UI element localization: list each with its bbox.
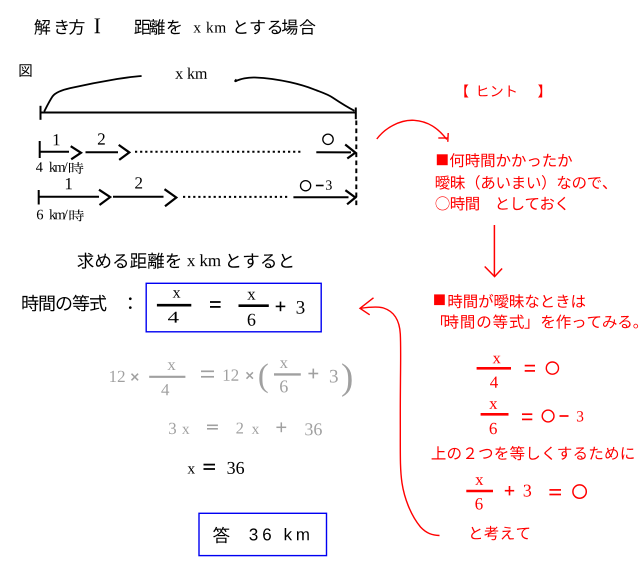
boxed eq numerator x1 — [173, 290, 181, 297]
title text 方 — [69, 19, 84, 35]
red frac3 equals — [549, 489, 561, 491]
row1 start tick — [39, 141, 41, 158]
row1 circle mark — [323, 134, 333, 144]
row2 arrow3 shaft — [293, 196, 348, 198]
title text 合 — [300, 19, 316, 35]
gray eq1 times right — [247, 372, 253, 378]
speed label km/ 1 — [49, 162, 67, 172]
red text 上の２つを等しくするために — [432, 446, 634, 460]
gray eq2 plus — [276, 426, 286, 428]
row1 arrow3 head — [345, 145, 355, 159]
red text を作ってみる。 — [542, 315, 638, 329]
big red curve — [361, 307, 440, 535]
gray eq2 equals — [207, 424, 218, 426]
red text 何時間かかったか — [450, 153, 572, 167]
hint header bracket right — [538, 85, 542, 98]
red arrow 1 head bar — [438, 137, 448, 139]
speed label 時 (serif) — [69, 162, 84, 174]
title text 離 — [149, 19, 165, 35]
row1 arrow3 shaft — [316, 151, 351, 153]
gray eq1 close paren — [342, 363, 352, 397]
red square bullet 2 — [434, 294, 445, 305]
red frac3 numerator x — [475, 477, 483, 485]
row2 label 1 — [66, 178, 72, 189]
speed label 時 (serif) 2 — [70, 210, 85, 222]
red frac1 circle — [546, 362, 558, 374]
red text ○時間 としておく — [436, 196, 566, 210]
title text 解 — [34, 19, 50, 35]
gray eq2 36 — [305, 423, 322, 435]
red frac2 numerator x — [489, 401, 497, 409]
red text 時間の等式 — [445, 314, 524, 328]
gray eq2 2 — [236, 423, 243, 434]
boxed eq bar2 — [239, 304, 269, 307]
gray eq2 x — [182, 427, 190, 434]
x km label over brace — [175, 68, 207, 79]
gray eq1 open paren — [259, 363, 267, 393]
red vertical arrow head — [485, 267, 502, 277]
row2 arrow2 head — [165, 189, 177, 206]
black x=36 36 — [228, 462, 245, 474]
black text 求める距離を — [77, 253, 180, 269]
row1 dotted line — [135, 151, 301, 153]
black colon — [129, 297, 132, 309]
boxed eq denominator 4 — [168, 312, 179, 323]
row1 arrow1 shaft — [40, 151, 69, 153]
gray eq1 12 right — [224, 369, 239, 380]
title text を — [168, 20, 181, 34]
boxed eq bar1 — [157, 304, 191, 307]
black x=36 equals — [204, 464, 216, 466]
hint header ヒント — [479, 86, 516, 97]
boxed eq plus — [276, 305, 286, 307]
red frac2 three — [577, 411, 583, 422]
gray eq1 numerator x2 — [280, 360, 288, 368]
red curved arrow 1 — [377, 120, 447, 139]
black text とすると — [228, 253, 292, 268]
red square bullet 1 — [437, 154, 448, 165]
answer letter m — [297, 531, 309, 540]
gray eq1 bar — [149, 376, 185, 378]
speed label km/ 2 — [49, 209, 68, 219]
row2 dotted line — [183, 196, 289, 198]
row2 minus sign — [316, 185, 324, 187]
red frac2 denominator 6 — [490, 423, 497, 435]
red frac2 minus — [560, 415, 569, 417]
gray eq1 12 left — [110, 371, 125, 382]
boxed eq equals — [210, 301, 221, 303]
hint header bracket left — [464, 85, 468, 98]
baseline segment — [40, 112, 357, 114]
gray eq1 bar2 — [274, 373, 301, 375]
red arrow 1 head bar2 — [447, 133, 449, 142]
title text す — [251, 20, 265, 34]
red frac2 circle — [542, 410, 554, 422]
red frac1 numerator x — [493, 356, 501, 364]
red frac3 denominator 6 — [475, 498, 482, 510]
answer digit 3 — [249, 528, 257, 540]
gray eq1 plus — [308, 373, 318, 375]
red frac2 equals — [522, 413, 532, 415]
boxed eq numerator x2 — [247, 292, 255, 300]
dashed vertical line — [355, 121, 357, 208]
title text と — [236, 20, 247, 34]
red frac3 circle — [573, 485, 586, 498]
red text 」(bracket) — [525, 319, 530, 329]
boxed eq denominator 6 — [248, 314, 256, 326]
title text る — [269, 21, 282, 34]
blue equation box — [146, 283, 321, 332]
zu label 図 — [20, 64, 32, 77]
row2 label 2 — [135, 177, 142, 188]
gray eq1 three — [330, 370, 338, 383]
red text 時間が曖昧なときは — [449, 294, 586, 308]
speed label 4 — [36, 162, 43, 172]
title text き — [56, 20, 68, 34]
answer text 答 — [213, 527, 230, 543]
red vertical arrow shaft — [493, 225, 495, 276]
red frac1 equals — [525, 365, 535, 367]
boxed eq three — [297, 301, 305, 314]
title text 距 — [134, 20, 150, 35]
title text x km — [193, 22, 226, 33]
red frac3 plus — [505, 490, 514, 492]
answer letter k — [285, 528, 292, 540]
row1 arrow2 shaft — [86, 151, 119, 153]
row2 start tick — [38, 190, 40, 205]
row2 label 3 — [326, 180, 332, 189]
black x=36 x — [188, 466, 196, 473]
row1 arrow1 head — [71, 146, 81, 159]
row2 arrow2 shaft — [113, 196, 164, 198]
left end tick — [40, 106, 42, 120]
red text 曖昧（あいまい）なので、 — [436, 175, 607, 190]
right brace curve — [235, 77, 354, 110]
title roman numeral I — [95, 19, 101, 34]
row2 circle mark — [301, 181, 311, 191]
gray eq1 times left — [132, 374, 139, 381]
row2 arrow1 shaft — [40, 196, 100, 198]
red text と考えて — [471, 526, 529, 540]
right end tick — [355, 108, 357, 120]
row1 arrow2 head — [119, 145, 130, 160]
row2 arrow3 head — [345, 190, 355, 204]
red frac1 bar — [477, 367, 511, 370]
gray eq2 3 — [169, 423, 176, 435]
black text 時間の等式 — [22, 295, 106, 312]
big red curve arrowhead — [360, 298, 374, 315]
red frac3 three — [524, 485, 531, 497]
red frac2 bar — [481, 413, 509, 416]
gray eq1 denominator 4 — [161, 384, 169, 395]
blue answer box — [199, 513, 327, 555]
left brace curve — [44, 76, 141, 112]
row1 label 1 — [54, 134, 60, 145]
gray eq1 denominator 6 — [280, 380, 288, 392]
gray eq1 equals — [201, 370, 214, 372]
answer digit 6 — [263, 528, 271, 540]
title text 場 — [282, 19, 298, 35]
red frac1 denominator 4 — [490, 377, 498, 388]
gray eq1 numerator x — [167, 362, 175, 370]
black text x km (mid) — [187, 254, 221, 266]
row1 label 2 — [98, 133, 105, 144]
row2 arrow1 head — [99, 190, 110, 205]
gray eq2 x2 — [252, 427, 260, 434]
speed label 6 — [37, 210, 43, 220]
red frac3 bar — [466, 490, 493, 493]
red text 「(bracket) — [441, 315, 446, 325]
